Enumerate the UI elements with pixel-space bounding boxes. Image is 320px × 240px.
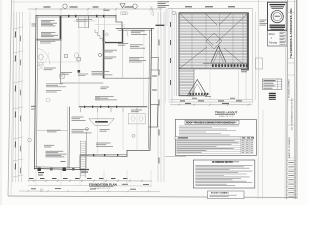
schedule table grid	[175, 138, 254, 140]
south step at x127	[126, 151, 128, 157]
top dim detail bubble	[121, 12, 128, 15]
note text below garage wall	[40, 41, 55, 43]
upper-right north wall	[116, 28, 154, 30]
truss vertical web lines	[191, 13, 193, 69]
left dimension texts	[14, 32, 16, 37]
sheet border left	[8, 0, 12, 196]
bottom dimension texts	[29, 178, 34, 180]
sheet paper	[8, 0, 298, 199]
shower box with X	[60, 74, 65, 79]
garage door arc	[37, 48, 50, 64]
note text left room label	[47, 129, 61, 131]
truss right descender lines	[237, 69, 239, 100]
truss left strip outline	[178, 13, 180, 96]
small text box mid	[78, 73, 88, 75]
interior line y130	[37, 130, 68, 132]
inter-plan long vertical	[164, 9, 166, 103]
note text top center	[76, 19, 92, 21]
note text hall center	[101, 86, 110, 88]
stamp seal circle	[271, 11, 283, 23]
note text mid-right block	[130, 44, 143, 46]
interior wall y78	[103, 77, 150, 79]
left margin artifacts	[0, 0, 2, 205]
grid bubble B	[133, 4, 137, 8]
inter-plan dim text	[156, 24, 165, 26]
svg-text:ROUGH PLUMBING: ROUGH PLUMBING	[211, 193, 229, 195]
jamb marks south mid wall	[93, 154, 94, 157]
south step at x80	[79, 156, 81, 170]
note text 6x6 post	[118, 43, 128, 45]
stamp box	[268, 2, 288, 30]
staircase	[80, 141, 82, 178]
svg-text:ROOF TRUSSES CONNECTORS SCHEDU: ROOF TRUSSES CONNECTORS SCHEDULE	[186, 123, 235, 125]
jamb ticks on y106 wall	[84, 106, 85, 108]
note text kitchen mid	[72, 116, 84, 118]
note text left lower	[44, 67, 56, 69]
note text left band1	[46, 83, 63, 85]
schedule sub header	[175, 137, 254, 140]
bottom dimension chain	[28, 180, 152, 183]
bottom chain bubble	[40, 189, 43, 192]
entry stepped wall	[95, 30, 106, 44]
stamp footer text	[270, 24, 286, 26]
truss hip diagonals (big X)	[179, 13, 213, 45]
grid bubble A	[63, 4, 67, 8]
note text near bottom center	[96, 142, 111, 144]
inter-plan notes top	[158, 1, 170, 3]
inter-plan leader curve	[150, 6, 153, 16]
south wall left segment	[35, 169, 81, 170]
step leader curve	[121, 25, 128, 36]
note text kitchen label	[100, 129, 110, 131]
lower gable dark marks	[190, 93, 192, 95]
east side small texts	[153, 75, 157, 77]
note text big left note	[44, 144, 54, 146]
roof trusses connectors schedule box	[175, 119, 256, 155]
interior extension lines	[78, 21, 80, 106]
dark dims below south wall	[38, 172, 44, 174]
south wall mid segment	[80, 155, 127, 158]
svg-text:SCALE: 1/4" = 1'-0": SCALE: 1/4" = 1'-0"	[95, 187, 111, 190]
truss top-center gable	[205, 13, 217, 25]
west wall	[35, 15, 37, 169]
east bump-out	[149, 105, 158, 128]
bath room rect	[128, 114, 145, 124]
kitchen counter trapezoid	[89, 119, 114, 126]
bottom-most dimension chain	[19, 190, 160, 193]
truss hatch left overhang	[176, 13, 178, 96]
entry zone light lines	[122, 44, 124, 79]
svg-text:SHEET NO OF DRAWN: SHEET NO OF DRAWN	[288, 137, 291, 158]
interior wall x122.5 (dark, entry)	[122, 29, 123, 44]
truss plan outline	[179, 13, 249, 69]
note text left mid1	[41, 32, 56, 34]
step wall top-right	[116, 15, 122, 28]
strip extra vertical line	[284, 0, 287, 199]
left dim cross ticks	[13, 27, 23, 29]
title strip vertical lines	[286, 0, 289, 199]
schedule row texts	[177, 139, 235, 141]
truss left dim texts	[170, 22, 172, 27]
dark cluster stair bottom	[80, 169, 89, 171]
fixtures left wall	[39, 54, 43, 60]
top extension lines	[35, 9, 37, 15]
inter-plan extension lines	[160, 8, 162, 26]
lower gable triangle	[188, 80, 208, 96]
top dimension ticks	[35, 8, 37, 10]
garage east wall lower	[60, 39, 63, 83]
strip bottom revision rows	[287, 160, 297, 162]
note text left of slab	[61, 72, 72, 74]
svg-text:TRUSS LAYOUT: TRUSS LAYOUT	[215, 111, 237, 115]
margin tiny text	[32, 23, 37, 25]
interior wall x88	[88, 16, 90, 28]
truss right dark band	[247, 13, 249, 69]
truss right dim small box	[256, 58, 263, 69]
garage south wall	[37, 38, 62, 40]
note text right-middle block	[129, 57, 143, 59]
right-side dimension lines of foundation plan	[157, 12, 159, 182]
foundation north wall	[36, 14, 116, 16]
truss grid bubble	[172, 11, 176, 15]
svg-text:FOUNDATION PLAN: FOUNDATION PLAN	[89, 182, 117, 186]
small circle marker kitchen	[98, 53, 101, 56]
dark text stack below legend	[269, 92, 276, 94]
top dimension texts	[44, 6, 50, 8]
permit box (Perry J Triming)	[268, 31, 288, 46]
small dash pair below	[61, 161, 66, 163]
interior wall x86 lower	[85, 132, 88, 168]
note text center-left	[104, 56, 117, 58]
note text garage top-left	[41, 20, 55, 22]
interior wall x69 lower	[68, 107, 71, 168]
sheet border top	[12, 1, 296, 4]
column pads along south wall	[38, 168, 41, 171]
oval fixture	[75, 53, 79, 59]
bottom extension lines	[35, 170, 37, 186]
svg-text:T&J BROOKS & ASSOCIATES, INC.: T&J BROOKS & ASSOCIATES, INC.	[289, 7, 293, 58]
interior long wall x103	[103, 30, 105, 78]
note text center-right leaders	[103, 49, 118, 51]
bottom dim second row	[28, 185, 152, 188]
top dimension line	[28, 8, 162, 10]
schedule title box	[185, 120, 239, 124]
interior wall y83	[61, 82, 104, 84]
truss hatch main block	[179, 13, 249, 69]
pads mid	[65, 55, 68, 58]
note text right bump	[131, 109, 142, 111]
schedule notes lines	[179, 125, 239, 127]
note text left band2	[46, 90, 61, 92]
stamp header text	[270, 4, 286, 6]
truss top dim texts	[185, 6, 192, 8]
note text right of step	[131, 30, 145, 32]
note text slab note	[92, 71, 110, 73]
truss plan dimension frame top	[168, 8, 252, 10]
truss center diamond	[206, 33, 222, 49]
note text mid lower	[72, 129, 89, 131]
note text below hall	[95, 96, 114, 98]
truss center-bottom gable	[211, 46, 226, 63]
svg-text:FLORIDA COMPANY: FLORIDA COMPANY	[288, 78, 291, 98]
truss girder dark marks row	[212, 64, 214, 67]
left dimension lines	[13, 12, 14, 182]
sheet border right	[295, 0, 298, 199]
interior wall y106.5	[79, 105, 147, 107]
truss hatch left lower strip	[179, 69, 194, 96]
plumbing notes lines	[195, 164, 252, 166]
svg-text:Triming: Triming	[269, 40, 278, 44]
strip separators	[287, 12, 295, 14]
sheet border bottom	[8, 196, 297, 198]
rough plumbing note box	[208, 191, 245, 199]
truss right small text	[241, 69, 249, 71]
closet walls top center	[78, 17, 80, 28]
entry bubble circle	[105, 33, 108, 36]
truss bottom dim lines	[170, 99, 252, 101]
legend box right mid	[262, 79, 282, 89]
plumbing notes box	[193, 160, 255, 188]
svg-text:Perry: Perry	[269, 32, 276, 36]
permit box right column tiny rows	[280, 31, 286, 33]
entry wall y42.5 (dark)	[105, 42, 122, 43]
note text big left note2	[46, 150, 64, 152]
east wall	[150, 29, 152, 150]
circle marker hall	[132, 134, 135, 137]
east bump-out upper	[151, 57, 159, 70]
truss plan dim line right	[252, 8, 254, 103]
door swing diagonals left	[37, 64, 44, 70]
inner vertical line right of schedule	[257, 0, 260, 199]
elevation triangle marker	[120, 4, 125, 9]
south wall right segment	[127, 149, 150, 151]
truss plan dim line left	[171, 8, 173, 103]
door jamb marks top wall	[68, 15, 69, 18]
truss girder line	[203, 62, 249, 64]
svg-text:SCALE: 1/8" = 1'-0": SCALE: 1/8" = 1'-0"	[219, 115, 234, 118]
truss right notes	[260, 19, 267, 21]
leader line to plumbing area	[165, 155, 186, 157]
left dim circle marker	[28, 138, 32, 142]
garage wall (dark)	[60, 16, 62, 39]
interior wall stubs below y106	[80, 108, 82, 112]
